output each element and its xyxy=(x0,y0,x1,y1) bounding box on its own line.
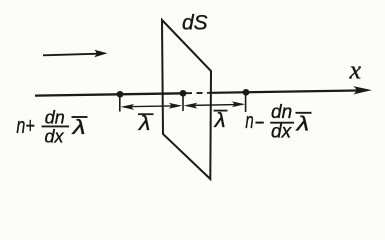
tick below dot 1 xyxy=(119,97,121,112)
svg-text:dn: dn xyxy=(45,107,65,127)
svg-text:dx: dx xyxy=(45,126,65,146)
x axis: solid left segment xyxy=(35,93,184,95)
svg-text:dx: dx xyxy=(271,122,293,143)
dimension arrow lambda (left span) xyxy=(121,103,183,110)
tick below dot 3 xyxy=(245,95,247,113)
node at x + lambda (dot 3) xyxy=(243,89,250,96)
svg-text:n+: n+ xyxy=(16,115,34,139)
node at surface (dot 2) xyxy=(180,90,187,97)
flow arrow (molecular flux direction) xyxy=(43,50,108,58)
svg-text:dn: dn xyxy=(271,102,292,123)
svg-text:λ: λ xyxy=(138,111,150,134)
svg-text:dS: dS xyxy=(182,12,208,35)
svg-text:n: n xyxy=(245,108,253,133)
svg-text:λ: λ xyxy=(295,113,310,135)
svg-text:x: x xyxy=(349,56,362,85)
svg-text:λ: λ xyxy=(214,110,226,132)
lambda bar label (right span) xyxy=(214,110,228,112)
dimension arrow lambda (right span) xyxy=(184,101,245,108)
surface element dS (tilted parallelogram) xyxy=(162,20,211,179)
svg-text:λ: λ xyxy=(71,116,86,138)
x axis: dashed segment behind surface xyxy=(186,92,212,94)
left concentration label: n + dn/dx lambda-bar xyxy=(16,107,87,146)
x axis: solid right segment xyxy=(212,91,357,93)
lambda bar label (left span) xyxy=(138,113,154,115)
tick below dot 2 xyxy=(182,96,184,112)
x axis arrowhead xyxy=(353,86,372,94)
node at x - lambda (dot 1) xyxy=(117,91,124,98)
right concentration label: n - dn/dx lambda-bar xyxy=(245,102,311,143)
